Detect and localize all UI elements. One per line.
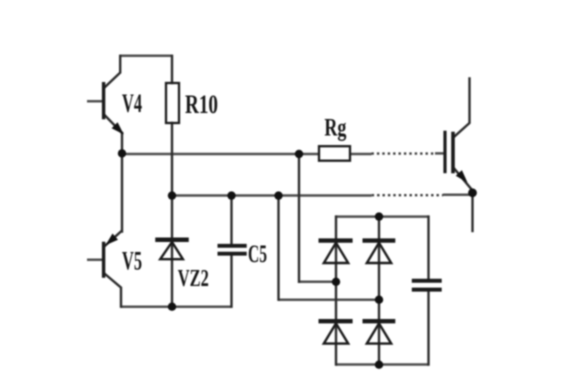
svg-text:V4: V4 — [122, 89, 142, 118]
svg-text:VZ2: VZ2 — [178, 266, 209, 292]
svg-text:R10: R10 — [185, 90, 218, 119]
svg-text:V5: V5 — [122, 247, 142, 276]
svg-text:C5: C5 — [248, 241, 267, 268]
svg-text:Rg: Rg — [324, 115, 346, 142]
